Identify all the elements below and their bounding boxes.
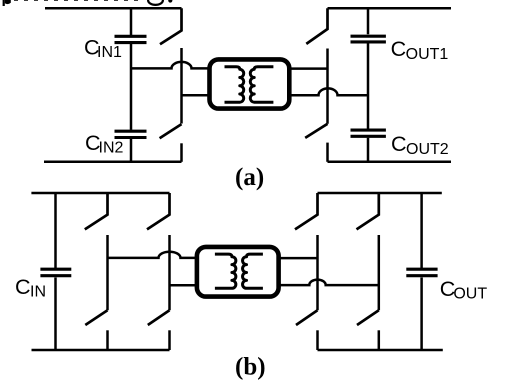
wire: (b) transformer lower-right lead with crossover hop over leg C to leg D [279,280,379,286]
wire: (b) output rail segments [420,193,423,350]
wire: (a) top-right rail wire [328,7,452,10]
svg-text:CIN2: CIN2 [85,131,124,157]
switch S5 (b, leg A top) [85,193,108,229]
capacitor COUT [406,269,437,276]
capacitor CIN [40,269,71,276]
letter-bottom specks [14,0,141,1]
wire: (b) leg A bottom stub [106,330,109,350]
wire: (a) right switch-leg mid rail [326,49,329,124]
wire: (a) bottom-left rail wire [44,161,182,164]
svg-text:COUT2: COUT2 [391,132,449,158]
switch S12 (b, leg D bottom) [357,310,379,325]
wire: (a) left input rail segments [130,8,133,162]
switch S7 (b, leg B top) [147,193,170,229]
transformer T2 (b) box [197,247,279,297]
wire: (b) leg B midpoint to transformer lower lead [170,284,198,287]
svg-text:COUT: COUT [440,277,488,303]
wire: (a) bottom-right rail wire [328,161,452,164]
switch S8 (b, leg B bottom) [148,310,170,325]
wire: (a) right output rail segments [367,8,370,162]
wire: (a) node between CIN1/CIN2 to transformer with crossover hop [131,62,208,68]
wire: (a) left switch-leg mid rail [180,48,183,124]
wire: (a) transformer upper-right lead to right leg [290,67,328,70]
transformer T2 primary winding [215,254,236,288]
switch S11 (b, leg D top) [357,193,379,229]
wire: (b) leg D mid rail [378,235,381,310]
wire: (b) leg A mid rail [106,235,109,310]
wire: (b) leg C mid rail [316,235,319,310]
svg-text:(a): (a) [235,164,264,191]
capacitor CIN1 [115,36,147,42]
switch S1 (a, left leg top) [160,8,182,44]
switch S10 (b, leg C bottom) [296,310,318,325]
switch S2 (a, left leg bottom) [160,124,182,138]
switch S6 (b, leg A bottom) [85,310,107,325]
transformer T1 primary winding [225,67,244,103]
wire: (b) leg B mid rail [168,235,171,310]
wire: (b) input rail segments [54,193,57,350]
switch S9 (b, leg C top) [295,193,318,229]
wire: (b) top-left rail wire [31,192,169,195]
g descender loop [148,0,163,5]
wire: (a) right switch-leg bottom stub [326,143,329,162]
wire: (a) left leg midpoint to transformer lower lead [182,94,209,97]
wire: (b) leg C bottom stub [316,330,319,350]
wire: (a) top-left rail wire [45,7,182,10]
transformer T2 secondary winding [243,254,263,288]
svg-text:(b): (b) [235,354,266,381]
wire: (b) leg A midpoint to transformer with crossover hop over leg B [108,252,198,258]
wire: (a) left switch-leg bottom stub [180,143,183,162]
wire: (b) leg B bottom stub [168,330,171,350]
capacitor CIN2 [115,131,147,137]
wire: (b) bottom-right rail wire [318,349,443,352]
svg-text:CIN1: CIN1 [84,35,122,61]
svg-text:COUT1: COUT1 [391,37,449,63]
wire: (b) top-right rail wire [318,192,442,195]
capacitor COUT2 [351,130,386,136]
transformer T1 (a) box [210,59,290,108]
transformer T1 secondary winding [250,67,273,103]
wire: (b) leg D bottom stub [378,330,381,350]
wire: (a) transformer lower-right lead with crossover hop to output midpoint [290,88,368,95]
capacitor COUT1 [351,36,386,42]
clipped caption text fragments at top edge [3,0,173,6]
wire: (b) bottom-left rail wire [32,349,170,352]
switch S4 (a, right leg bottom) [305,124,327,138]
svg-text:CIN: CIN [15,275,46,301]
wire: (b) transformer upper-right lead to leg C [279,257,318,260]
switch S3 (a, right leg top) [306,8,327,44]
